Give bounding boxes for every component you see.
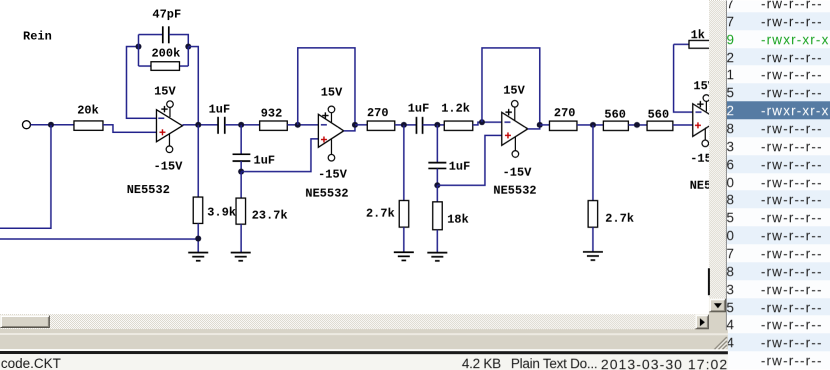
corner between scrollbars xyxy=(709,312,726,329)
ground G2 xyxy=(231,253,251,261)
wire feedback left riser xyxy=(137,35,139,66)
wire U3 feedback loop xyxy=(482,48,540,125)
node J xyxy=(634,122,640,128)
wire C2 to node B xyxy=(225,124,260,126)
ground G4 xyxy=(427,253,447,261)
wire 560a to node J xyxy=(628,124,647,126)
wire C4 to node G xyxy=(423,124,445,126)
svg-text:NE5532: NE5532 xyxy=(305,187,348,201)
wire bottom ground rail xyxy=(0,238,198,240)
resistor R11 2.7k xyxy=(588,201,634,228)
wire 560b to U4 + input xyxy=(673,124,693,126)
svg-text:47pF: 47pF xyxy=(152,8,181,22)
svg-text:1uF: 1uF xyxy=(209,103,231,117)
wire U4 feedback top xyxy=(674,43,689,45)
wire node C down to 23.7k xyxy=(240,172,242,199)
wire U1 - input to feedback xyxy=(126,47,156,119)
ground G5 xyxy=(583,252,603,260)
resistor R8 1.2k xyxy=(441,102,473,131)
wire C5 to node H xyxy=(436,168,438,185)
horizontal scrollbar thumb xyxy=(0,314,50,327)
wire node E2 to 270b xyxy=(540,124,550,126)
ground G3 xyxy=(394,252,414,260)
node G1n xyxy=(195,236,201,242)
file list pane background rows xyxy=(727,0,830,370)
svg-text:-15V: -15V xyxy=(503,166,533,180)
node H3 xyxy=(479,119,485,125)
node F1R xyxy=(185,44,191,50)
wire 20k to U1 + input xyxy=(103,125,157,133)
node B xyxy=(238,122,244,128)
op-amp U3 NE5532 xyxy=(493,84,536,198)
wire node F down to 2.7k xyxy=(403,125,405,201)
wire 932 to node D xyxy=(287,124,318,126)
ground G1 xyxy=(188,253,208,261)
capacitor C4 1uF series xyxy=(408,102,430,134)
wire feedback right riser xyxy=(187,47,189,67)
wire 270a to node F xyxy=(395,124,417,126)
wire node A down-left xyxy=(0,125,51,229)
schematic preview pane xyxy=(0,0,709,314)
vertical scrollbar thumb line xyxy=(708,268,710,295)
resize grip xyxy=(712,336,728,351)
svg-text:15V: 15V xyxy=(321,86,343,100)
wire node G down xyxy=(436,125,438,163)
svg-text:560: 560 xyxy=(648,108,670,122)
wire U2 feedback loop xyxy=(298,48,355,125)
svg-text:3.9k: 3.9k xyxy=(207,206,236,220)
node G xyxy=(434,122,440,128)
node C xyxy=(238,169,244,175)
wire 270b to node I xyxy=(577,124,603,126)
svg-text:15V: 15V xyxy=(693,79,709,93)
status bar xyxy=(0,354,728,370)
resistor R13 560 xyxy=(647,108,673,131)
svg-text:15V: 15V xyxy=(503,84,525,98)
svg-text:1uF: 1uF xyxy=(408,102,430,116)
wire cap branch right xyxy=(169,35,189,47)
horizontal scrollbar track xyxy=(0,314,695,329)
wire U3 output jog xyxy=(528,125,540,129)
node D xyxy=(295,122,301,128)
op-amp U2 NE5532 xyxy=(305,86,348,201)
svg-text:-15V: -15V xyxy=(154,160,184,174)
wire node C to U2 + input xyxy=(241,139,318,172)
wire 2.7k to ground xyxy=(403,227,405,252)
node H xyxy=(434,182,440,188)
wire U2 output jog xyxy=(344,125,355,131)
white divider line xyxy=(0,349,728,351)
svg-text:23.7k: 23.7k xyxy=(252,209,288,223)
node B1 xyxy=(195,122,201,128)
svg-text:270: 270 xyxy=(554,106,576,120)
node A xyxy=(48,122,54,128)
wire feedback to output node xyxy=(188,47,198,125)
resistor R4 23.7k xyxy=(236,198,288,224)
resistor R10 270 xyxy=(549,106,577,130)
wire U4 feedback riser xyxy=(674,44,693,112)
svg-text:NE5532: NE5532 xyxy=(690,179,709,193)
svg-text:Rein: Rein xyxy=(23,30,52,44)
resistor R3 3.9k xyxy=(193,197,236,223)
wire cap branch left xyxy=(138,34,162,36)
input terminal xyxy=(22,121,30,129)
capacitor C5 1uF shunt xyxy=(428,160,470,174)
svg-text:270: 270 xyxy=(367,106,389,120)
svg-text:1.2k: 1.2k xyxy=(441,102,470,116)
op-amp U1 NE5532 xyxy=(127,85,184,198)
wire node I down to 2.7k xyxy=(592,125,594,201)
svg-text:NE5532: NE5532 xyxy=(127,183,170,197)
wire 3.9k to bottom node xyxy=(197,223,199,252)
svg-text:-15V: -15V xyxy=(318,168,348,182)
wire input to 20k xyxy=(30,124,73,126)
resistor R7 2.7k xyxy=(366,201,409,228)
svg-text:20k: 20k xyxy=(77,104,99,118)
resistor R9 18k xyxy=(433,202,469,230)
wire 1.2k to U3 - input xyxy=(473,122,502,125)
node E2 xyxy=(537,122,543,128)
resistor R14 1k xyxy=(689,28,716,48)
vertical scrollbar down button xyxy=(709,298,726,312)
resistor R12 560 xyxy=(603,108,628,131)
svg-text:560: 560 xyxy=(604,108,626,122)
wire node B1 down to 3.9k xyxy=(197,125,199,197)
node E xyxy=(352,122,358,128)
wire node E to 270a xyxy=(355,124,367,126)
resistor R1 20k xyxy=(74,104,103,131)
svg-text:1k: 1k xyxy=(691,28,705,42)
lister pane footer gray strip xyxy=(0,329,728,351)
black divider bar xyxy=(0,351,728,354)
resistor R5 932 xyxy=(260,107,288,131)
wire node B down xyxy=(240,125,242,154)
resistor R2 200k xyxy=(138,47,188,71)
capacitor C2 1uF series xyxy=(209,103,231,134)
svg-text:15V: 15V xyxy=(154,85,176,99)
node I xyxy=(590,122,596,128)
wire 2.7k-b to ground xyxy=(592,227,594,251)
capacitor C3 1uF shunt xyxy=(233,154,276,168)
svg-text:NE5532: NE5532 xyxy=(493,184,536,198)
capacitor C1 47pF xyxy=(152,8,181,44)
svg-text:18k: 18k xyxy=(447,213,469,227)
wire U1 output xyxy=(182,124,217,126)
vertical scrollbar track xyxy=(709,0,726,299)
wire C3 to node C xyxy=(240,161,242,172)
op-amp U4 NE5532 xyxy=(690,79,733,193)
list pane left border xyxy=(726,0,727,330)
node F xyxy=(401,122,407,128)
svg-text:1uF: 1uF xyxy=(253,154,275,168)
horizontal scrollbar right button xyxy=(695,314,709,329)
svg-text:2.7k: 2.7k xyxy=(605,212,634,226)
svg-text:-15V: -15V xyxy=(690,152,709,166)
wire node H to U3 + input xyxy=(437,135,501,185)
svg-text:932: 932 xyxy=(261,107,283,121)
wire 23.7k to ground xyxy=(240,224,242,252)
resistor R6 270 xyxy=(367,106,395,130)
svg-text:200k: 200k xyxy=(151,47,180,61)
wire node H down to 18k xyxy=(436,185,438,202)
svg-text:1uF: 1uF xyxy=(449,160,471,174)
svg-text:2.7k: 2.7k xyxy=(366,207,395,221)
wire 18k to ground xyxy=(436,230,438,253)
node F1L xyxy=(135,44,141,50)
